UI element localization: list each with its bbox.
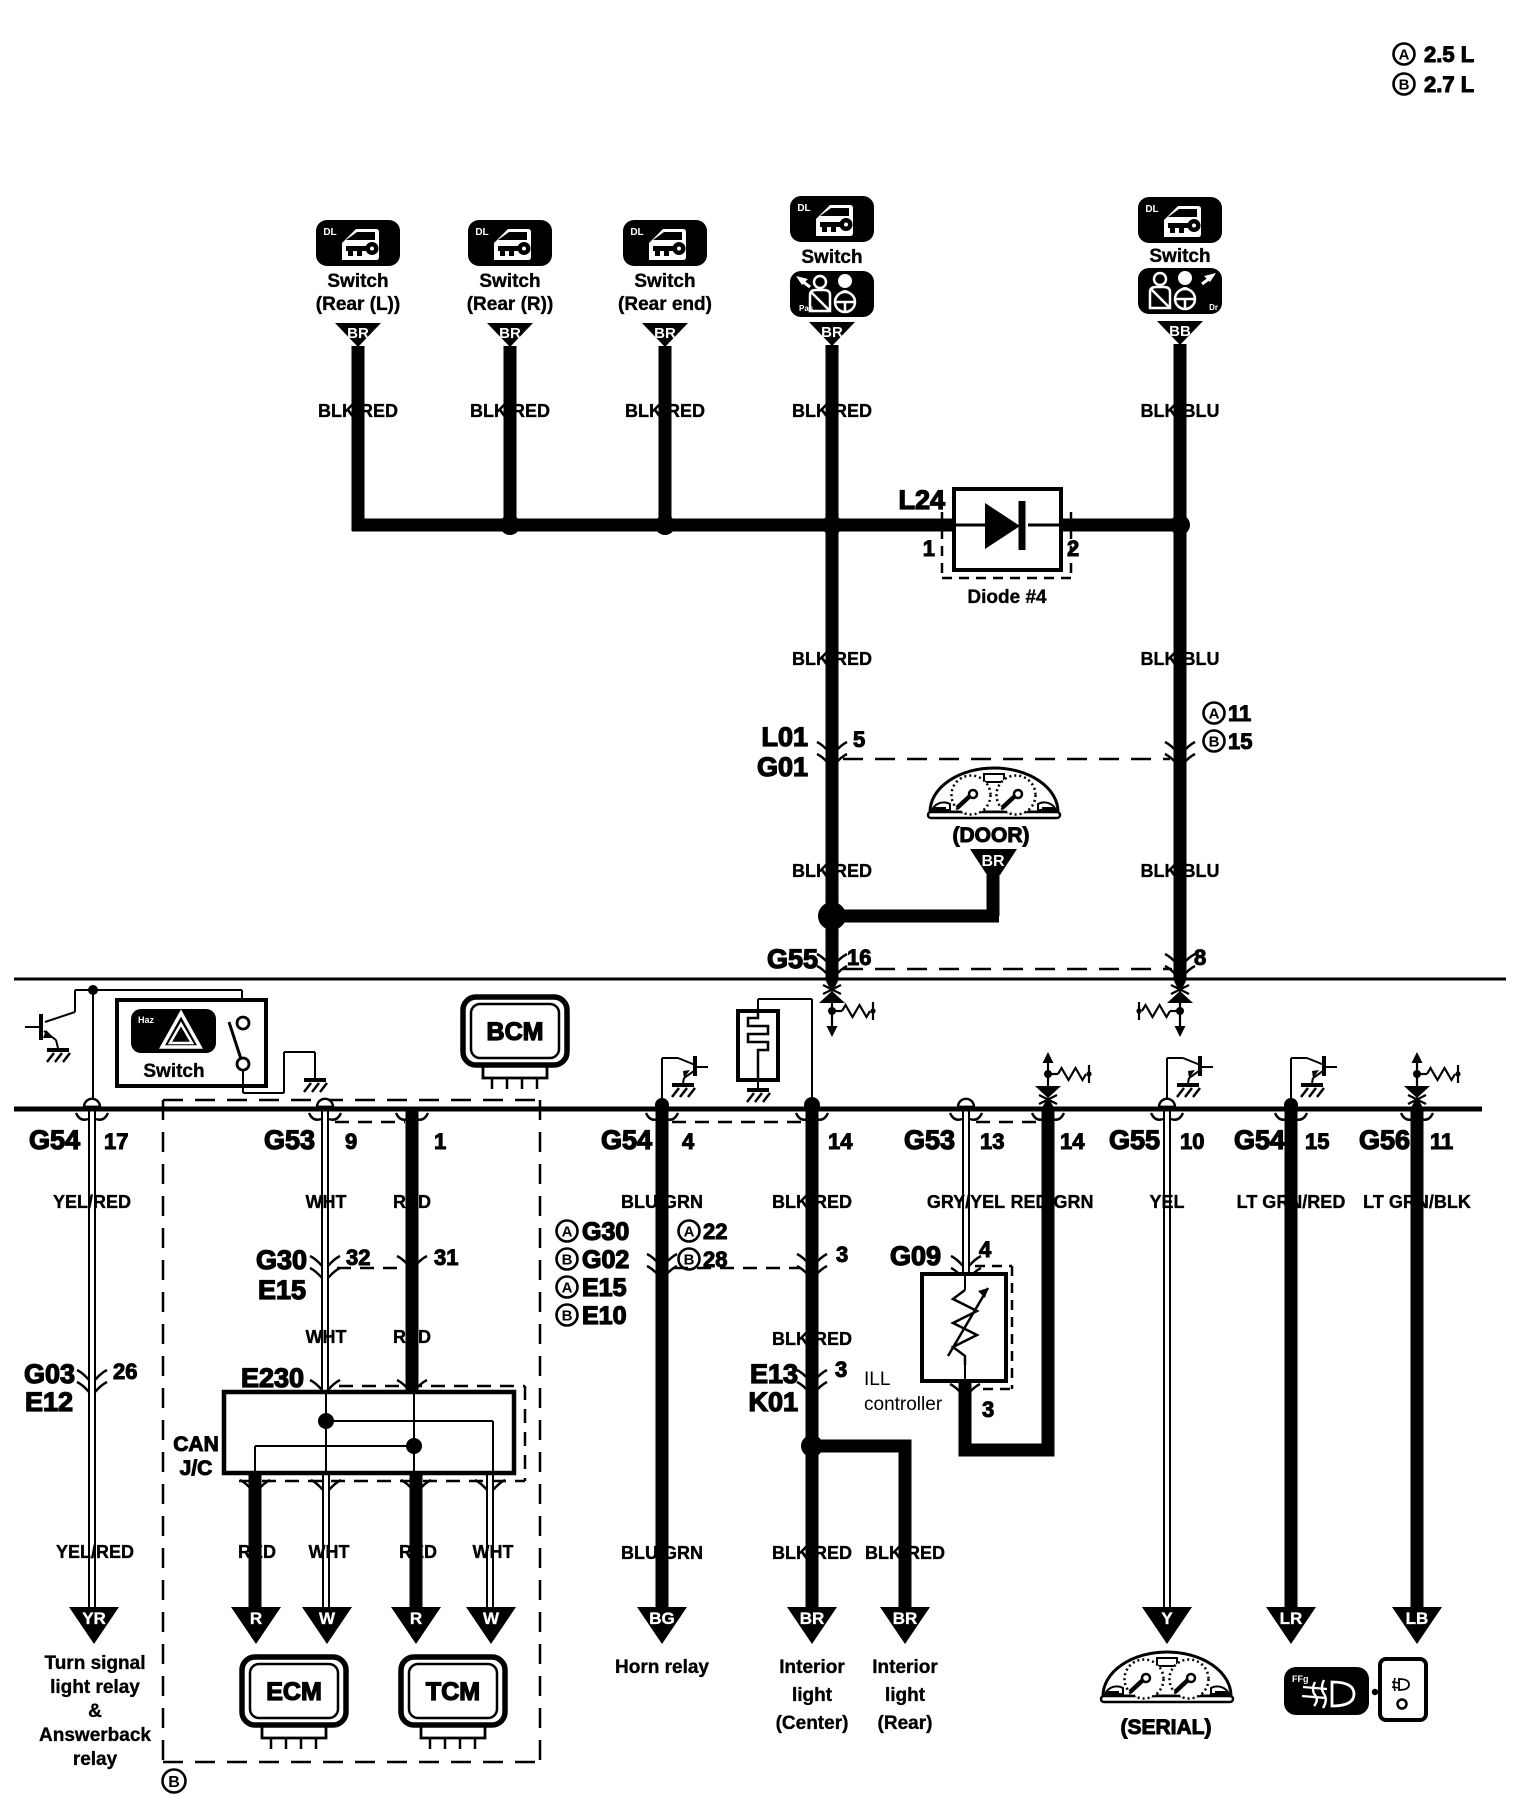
svg-text:BLK/RED: BLK/RED bbox=[772, 1543, 852, 1563]
svg-text:G54: G54 bbox=[29, 1125, 80, 1155]
svg-text:LT GRN/RED: LT GRN/RED bbox=[1237, 1192, 1346, 1212]
connector G53 pin 9 bbox=[317, 1099, 333, 1107]
svg-text:LB: LB bbox=[1406, 1609, 1429, 1628]
svg-text:A: A bbox=[562, 1279, 573, 1296]
svg-text:J/C: J/C bbox=[180, 1457, 213, 1480]
svg-text:RED: RED bbox=[393, 1327, 431, 1347]
svg-text:WHT: WHT bbox=[306, 1192, 347, 1212]
connector BLU/GRN crossing bbox=[647, 1254, 659, 1264]
connector pin 14 bbox=[796, 1113, 808, 1120]
svg-text:G56: G56 bbox=[1359, 1125, 1410, 1155]
svg-text:BCM: BCM bbox=[487, 1018, 544, 1046]
svg-text:WHT: WHT bbox=[309, 1542, 350, 1562]
wire LT GRN/BLK column bbox=[1411, 1111, 1424, 1607]
hazard switch contacts bbox=[237, 1017, 249, 1029]
svg-text:22: 22 bbox=[703, 1219, 727, 1244]
svg-text:E15: E15 bbox=[258, 1275, 306, 1305]
bus wire horizontal left segment bbox=[352, 519, 954, 532]
svg-text:15: 15 bbox=[1305, 1129, 1329, 1154]
wire hazard feed down to G54-17 bbox=[92, 990, 94, 1106]
svg-text:FFg: FFg bbox=[1292, 1674, 1309, 1684]
svg-text:ILL: ILL bbox=[864, 1369, 890, 1390]
svg-text:3: 3 bbox=[982, 1397, 994, 1422]
svg-text:Switch: Switch bbox=[634, 271, 695, 292]
CAN internal wiring bbox=[325, 1392, 327, 1473]
connector BLK/RED crossing pin 3 bbox=[797, 1254, 809, 1264]
svg-text:10: 10 bbox=[1180, 1129, 1204, 1154]
termination above line RED/GRN bbox=[1042, 1096, 1055, 1109]
svg-text:(Rear end): (Rear end) bbox=[618, 294, 712, 315]
svg-text:26: 26 bbox=[113, 1359, 137, 1384]
svg-text:BLK/RED: BLK/RED bbox=[772, 1329, 852, 1349]
connector G54 pin 15 bbox=[1275, 1113, 1287, 1120]
svg-text:G55: G55 bbox=[1109, 1125, 1160, 1155]
wire relay to bus bbox=[757, 999, 759, 1011]
svg-text:Switch: Switch bbox=[1149, 246, 1210, 267]
svg-text:BLK/RED: BLK/RED bbox=[772, 1192, 852, 1212]
svg-text:R: R bbox=[410, 1609, 422, 1628]
svg-text:(Rear (L)): (Rear (L)) bbox=[316, 294, 400, 315]
svg-text:Switch: Switch bbox=[801, 247, 862, 268]
dashed bracket to pin 3 bbox=[674, 1267, 800, 1270]
svg-text:L01: L01 bbox=[761, 722, 808, 752]
svg-text:14: 14 bbox=[828, 1129, 853, 1154]
svg-text:RED: RED bbox=[393, 1192, 431, 1212]
diode L24 box bbox=[954, 489, 1061, 570]
svg-text:(Rear (R)): (Rear (R)) bbox=[467, 294, 554, 315]
passenger belt icon S4 bbox=[790, 271, 874, 317]
svg-text:LR: LR bbox=[1280, 1609, 1303, 1628]
svg-text:3: 3 bbox=[836, 1242, 848, 1267]
svg-text:WHT: WHT bbox=[473, 1542, 514, 1562]
legend engine A 2.5 L bbox=[1394, 44, 1415, 65]
ILL controller dashed box bbox=[975, 1265, 1012, 1268]
connector right pin 8 bbox=[1165, 954, 1177, 964]
connector right pin A11 B15 bbox=[1165, 742, 1177, 752]
wire hazard switch top bbox=[93, 989, 242, 991]
svg-text:4: 4 bbox=[682, 1129, 695, 1154]
CAN output connectors bbox=[240, 1480, 252, 1490]
svg-text:A: A bbox=[1209, 705, 1220, 722]
wire BLK/RED S3 vertical bbox=[659, 346, 672, 531]
door lock switch S1 (Rear (L)) bbox=[316, 220, 400, 266]
module BCM bbox=[463, 997, 567, 1065]
svg-text:2.5 L: 2.5 L bbox=[1424, 42, 1474, 67]
wire BLK/RED branch junction bbox=[801, 1435, 823, 1457]
big dashed box B region bbox=[163, 1099, 540, 1102]
svg-text:BLK/BLU: BLK/BLU bbox=[1141, 649, 1220, 669]
svg-text:2: 2 bbox=[1067, 536, 1079, 561]
svg-text:Horn relay: Horn relay bbox=[615, 1657, 709, 1678]
fog indicator dot bbox=[1372, 1689, 1378, 1695]
svg-text:Switch: Switch bbox=[479, 271, 540, 292]
transistor at G55-10 bbox=[1166, 1058, 1168, 1106]
svg-text:13: 13 bbox=[980, 1129, 1004, 1154]
svg-text:16: 16 bbox=[847, 945, 871, 970]
svg-text:2.7 L: 2.7 L bbox=[1424, 72, 1474, 97]
svg-text:Dr: Dr bbox=[1209, 303, 1218, 312]
transistor at G54-4 bbox=[661, 1058, 663, 1106]
svg-text:(DOOR): (DOOR) bbox=[953, 824, 1030, 847]
svg-text:BLU/GRN: BLU/GRN bbox=[621, 1192, 703, 1212]
junction dot S4 elbow bbox=[818, 902, 846, 930]
wire RED column upper bbox=[406, 1111, 419, 1392]
connector G54 pin 4 bbox=[646, 1113, 658, 1120]
legend engine B 2.7 L bbox=[1394, 74, 1415, 95]
junction dots on bus bbox=[500, 515, 520, 535]
svg-text:DL: DL bbox=[475, 227, 488, 238]
svg-text:E13: E13 bbox=[750, 1359, 798, 1389]
hazard icon bbox=[131, 1009, 216, 1053]
svg-text:32: 32 bbox=[346, 1245, 370, 1270]
svg-text:Y: Y bbox=[1161, 1609, 1173, 1628]
door lock switch S5 (driver) bbox=[1138, 197, 1222, 243]
dashed bracket 9-1 bbox=[335, 1121, 405, 1124]
circled B bottom bbox=[163, 1770, 186, 1793]
svg-text:Haz: Haz bbox=[138, 1015, 155, 1025]
CAN outputs wires bbox=[249, 1473, 262, 1607]
svg-text:B: B bbox=[562, 1307, 573, 1324]
svg-text:E10: E10 bbox=[582, 1302, 626, 1330]
connector pin 1 bbox=[396, 1113, 408, 1120]
svg-text:BLK/RED: BLK/RED bbox=[792, 861, 872, 881]
wire WHT column upper bbox=[321, 1111, 323, 1392]
svg-text:relay: relay bbox=[73, 1749, 118, 1770]
svg-text:G09: G09 bbox=[890, 1241, 941, 1271]
svg-text:GRY/YEL: GRY/YEL bbox=[927, 1192, 1005, 1212]
svg-text:B: B bbox=[562, 1251, 573, 1268]
svg-text:Interior: Interior bbox=[779, 1657, 845, 1678]
connector G54 pin 17 bbox=[84, 1099, 100, 1107]
svg-text:RED: RED bbox=[238, 1542, 276, 1562]
wire YEL/RED column bbox=[88, 1111, 90, 1607]
connector G53 pin 13 bbox=[958, 1099, 974, 1107]
connector ILL output pin 3 bbox=[950, 1384, 962, 1394]
wire BLK/RED S4 vertical upper bbox=[826, 345, 839, 980]
svg-text:A: A bbox=[1399, 46, 1410, 63]
svg-text:BLU/GRN: BLU/GRN bbox=[621, 1543, 703, 1563]
svg-text:11: 11 bbox=[1430, 1129, 1453, 1154]
transistor at G54-15 bbox=[1290, 1058, 1292, 1106]
svg-text:31: 31 bbox=[434, 1245, 458, 1270]
svg-text:BLK/RED: BLK/RED bbox=[792, 401, 872, 421]
wire GRY/YEL column bbox=[962, 1111, 964, 1274]
svg-text:BLK/RED: BLK/RED bbox=[625, 401, 705, 421]
svg-text:E15: E15 bbox=[582, 1274, 627, 1302]
svg-text:A: A bbox=[562, 1223, 573, 1240]
svg-text:Diode #4: Diode #4 bbox=[967, 587, 1047, 608]
svg-text:8: 8 bbox=[1194, 945, 1206, 970]
svg-text:E230: E230 bbox=[241, 1363, 304, 1393]
termination resistor symbol below line at S4 bbox=[826, 980, 839, 993]
svg-text:A: A bbox=[684, 1223, 695, 1240]
dashed connector line G55 row bbox=[843, 968, 1172, 971]
svg-text:1: 1 bbox=[434, 1129, 446, 1154]
svg-text:(SERIAL): (SERIAL) bbox=[1121, 1716, 1212, 1739]
wire BR gauge down bbox=[987, 875, 1000, 916]
svg-text:DL: DL bbox=[323, 227, 336, 238]
connector names A-G30 B-G02 A-E15 B-E10 bbox=[557, 1221, 578, 1242]
svg-text:4: 4 bbox=[979, 1237, 992, 1262]
main bus thick line bbox=[14, 1107, 1482, 1112]
svg-text:WHT: WHT bbox=[306, 1327, 347, 1347]
gauge cluster (DOOR) bbox=[930, 768, 1058, 812]
svg-text:YEL/RED: YEL/RED bbox=[53, 1192, 131, 1212]
svg-text:G55: G55 bbox=[767, 944, 818, 974]
junction dot hazard feed bbox=[88, 985, 98, 995]
ground relay bbox=[757, 1080, 759, 1088]
svg-text:BR: BR bbox=[893, 1609, 918, 1628]
svg-text:E12: E12 bbox=[25, 1387, 73, 1417]
svg-text:light: light bbox=[885, 1685, 926, 1706]
section divider thin line bbox=[14, 978, 1506, 981]
svg-text:BLK/RED: BLK/RED bbox=[470, 401, 550, 421]
svg-text:CAN: CAN bbox=[173, 1433, 219, 1456]
svg-text:light relay: light relay bbox=[50, 1677, 140, 1698]
driver belt icon S5 bbox=[1138, 268, 1222, 314]
svg-text:BLK/RED: BLK/RED bbox=[792, 649, 872, 669]
ILL controller box bbox=[922, 1274, 1006, 1381]
svg-text:17: 17 bbox=[104, 1129, 128, 1154]
svg-text:(Center): (Center) bbox=[776, 1713, 849, 1734]
svg-text:DL: DL bbox=[1145, 204, 1158, 215]
hazard switch box bbox=[117, 1000, 266, 1086]
svg-text:BG: BG bbox=[649, 1609, 675, 1628]
gauge cluster (SERIAL) bbox=[1103, 1652, 1231, 1696]
svg-text:G01: G01 bbox=[757, 752, 808, 782]
wire YEL column bbox=[1163, 1111, 1165, 1607]
svg-text:B: B bbox=[1399, 76, 1410, 93]
svg-text:G54: G54 bbox=[601, 1125, 652, 1155]
wire BLU/GRN column bbox=[656, 1111, 669, 1607]
svg-text:controller: controller bbox=[864, 1394, 943, 1415]
svg-text:Switch: Switch bbox=[143, 1061, 204, 1082]
svg-text:LT GRN/BLK: LT GRN/BLK bbox=[1363, 1192, 1471, 1212]
svg-text:W: W bbox=[483, 1609, 500, 1628]
svg-text:DL: DL bbox=[797, 203, 810, 214]
svg-text:G30: G30 bbox=[582, 1218, 629, 1246]
relay coil box bbox=[738, 1011, 778, 1080]
svg-text:&: & bbox=[88, 1701, 102, 1722]
dashed bracket 4-14 bbox=[672, 1121, 805, 1124]
svg-text:BR: BR bbox=[800, 1609, 825, 1628]
wire BLK/RED S1 vertical bbox=[352, 346, 365, 531]
ILL variable resistor bbox=[964, 1274, 966, 1290]
connector G55 pin 10 bbox=[1159, 1099, 1175, 1107]
svg-text:BR: BR bbox=[981, 853, 1005, 870]
svg-text:DL: DL bbox=[630, 227, 643, 238]
svg-text:G54: G54 bbox=[1234, 1125, 1285, 1155]
wire BLK/RED S2 vertical bbox=[504, 346, 517, 531]
diode dashed bracket bbox=[941, 512, 944, 578]
pin labels A22 B28 bbox=[679, 1221, 700, 1242]
fog lamp icon bbox=[1284, 1667, 1369, 1715]
CAN J/C dashed box bbox=[339, 1385, 525, 1388]
wire LT GRN/RED column bbox=[1285, 1111, 1298, 1607]
termination above line G56-11 bbox=[1411, 1096, 1424, 1109]
door lock switch S3 (Rear end) bbox=[623, 220, 707, 266]
svg-text:W: W bbox=[319, 1609, 336, 1628]
wire BLK/BLU S5 vertical upper bbox=[1174, 344, 1187, 980]
bus wire horizontal right segment bbox=[1061, 519, 1186, 532]
junction dots on bus line bbox=[655, 1098, 669, 1112]
dashed connector line L01 row bbox=[843, 758, 1170, 761]
module TCM bbox=[401, 1657, 505, 1725]
svg-text:Switch: Switch bbox=[327, 271, 388, 292]
door lock switch S2 (Rear (R)) bbox=[468, 220, 552, 266]
wire RED/GRN column bbox=[1042, 1111, 1055, 1445]
svg-text:YR: YR bbox=[82, 1609, 106, 1628]
svg-text:Turn signal: Turn signal bbox=[45, 1653, 146, 1674]
svg-text:light: light bbox=[792, 1685, 833, 1706]
svg-text:15: 15 bbox=[1228, 729, 1252, 754]
svg-text:BLK/RED: BLK/RED bbox=[865, 1543, 945, 1563]
svg-text:BLK/RED: BLK/RED bbox=[318, 401, 398, 421]
svg-text:B: B bbox=[168, 1774, 180, 1791]
transistor far left bbox=[75, 989, 93, 991]
door lock switch S4 (front pass) bbox=[790, 196, 874, 242]
svg-text:G30: G30 bbox=[256, 1245, 307, 1275]
svg-text:RED: RED bbox=[399, 1542, 437, 1562]
dashed bracket 13-14 bbox=[976, 1121, 1041, 1124]
svg-text:R: R bbox=[250, 1609, 262, 1628]
svg-text:B: B bbox=[684, 1251, 695, 1268]
module ECM bbox=[242, 1657, 346, 1725]
svg-text:L24: L24 bbox=[898, 485, 945, 515]
connector pin 14 RED/GRN bbox=[1032, 1113, 1044, 1120]
svg-text:Interior: Interior bbox=[872, 1657, 938, 1678]
svg-text:BLK/BLU: BLK/BLU bbox=[1141, 401, 1220, 421]
svg-text:B: B bbox=[1209, 733, 1220, 750]
svg-text:Answerback: Answerback bbox=[39, 1725, 151, 1746]
svg-text:1: 1 bbox=[923, 536, 935, 561]
svg-text:3: 3 bbox=[835, 1357, 847, 1382]
termination resistor symbol below line at S5 bbox=[1174, 980, 1187, 993]
connector G56 pin 11 bbox=[1401, 1113, 1413, 1120]
svg-text:G53: G53 bbox=[904, 1125, 955, 1155]
CAN J/C junction box bbox=[224, 1392, 514, 1473]
svg-text:K01: K01 bbox=[748, 1387, 798, 1417]
svg-text:9: 9 bbox=[345, 1129, 357, 1154]
svg-text:ECM: ECM bbox=[266, 1678, 322, 1706]
wire ILL output down to RED/GRN U-connection bbox=[965, 1115, 1048, 1450]
ground hazard bbox=[304, 1078, 326, 1082]
svg-text:5: 5 bbox=[853, 727, 865, 752]
svg-text:TCM: TCM bbox=[426, 1678, 480, 1706]
svg-text:G03: G03 bbox=[24, 1359, 75, 1389]
svg-text:BLK/BLU: BLK/BLU bbox=[1141, 861, 1220, 881]
svg-text:G53: G53 bbox=[264, 1125, 315, 1155]
svg-text:YEL/RED: YEL/RED bbox=[56, 1542, 134, 1562]
wire elbow gauge to S4 wire bbox=[832, 910, 999, 923]
wire BLK/RED column bbox=[806, 1111, 819, 1607]
svg-text:(Rear): (Rear) bbox=[878, 1713, 933, 1734]
svg-text:14: 14 bbox=[1060, 1129, 1085, 1154]
svg-text:11: 11 bbox=[1228, 701, 1251, 726]
svg-text:YEL: YEL bbox=[1149, 1192, 1184, 1212]
fog switch small box bbox=[1380, 1659, 1426, 1720]
wire hazard to ground bbox=[242, 1070, 244, 1093]
svg-text:G02: G02 bbox=[582, 1246, 629, 1274]
